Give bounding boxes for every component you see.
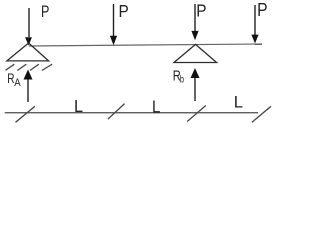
svg-text:P: P — [41, 3, 49, 21]
svg-text:L: L — [234, 93, 243, 111]
svg-text:L: L — [74, 96, 83, 116]
svg-text:P: P — [257, 0, 267, 20]
svg-text:b: b — [180, 73, 184, 84]
svg-text:P: P — [119, 2, 129, 21]
svg-text:L: L — [152, 96, 160, 117]
svg-text:A: A — [14, 78, 20, 90]
svg-text:P: P — [196, 2, 206, 21]
